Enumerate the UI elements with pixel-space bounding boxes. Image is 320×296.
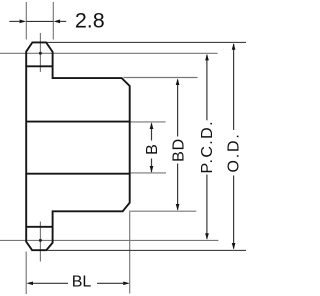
dimension BL right segment [97, 282, 123, 284]
dimension P.C.D. arrowhead up [205, 54, 209, 61]
svg-text:O.D.: O.D. [225, 132, 242, 172]
dimension 2.8 left arrowhead [20, 20, 27, 24]
dimension O.D. line lower [233, 176, 235, 249]
extension line 2.8 right [52, 2, 54, 40]
extension line BL right [129, 212, 131, 294]
tooth vertical center line bottom [39, 222, 41, 262]
dimension B arrowhead up [150, 122, 154, 129]
tooth root line top [26, 65, 52, 67]
svg-text:B: B [144, 144, 161, 155]
dimension P.C.D. line upper [206, 55, 208, 120]
O.D. extension line top [47, 41, 246, 43]
pitch center line top [0, 52, 218, 54]
tooth vertical center line top [39, 33, 41, 72]
svg-text:BL: BL [72, 273, 92, 290]
dimension BD line lower [177, 164, 179, 210]
svg-text:P.C.D.: P.C.D. [199, 120, 216, 173]
tooth root line bottom [26, 226, 52, 228]
dimension BL left arrowhead [26, 281, 33, 285]
extension line BD top [124, 77, 198, 79]
extension line B bottom [130, 172, 166, 174]
dimension 2.8 right arrowhead [54, 20, 61, 24]
dimension B arrowhead down [150, 166, 154, 173]
dimension BL left segment [33, 282, 68, 284]
dimension B line lower [151, 159, 153, 173]
dimension 2.8 right tail [60, 20, 66, 22]
bore line top [26, 121, 130, 123]
dimension O.D. line upper [233, 44, 235, 130]
dimension 2.8 middle segment [26, 20, 53, 22]
pitch point dot top [39, 52, 42, 55]
O.D. extension line bottom [47, 249, 246, 251]
pitch point dot bottom [39, 239, 42, 242]
extension line 2.8 left [25, 2, 27, 40]
dimension P.C.D. line lower [206, 175, 208, 239]
svg-text:BD: BD [170, 138, 187, 162]
dimension BD line upper [177, 80, 179, 137]
extension line BD bottom [129, 210, 196, 212]
dimension BD arrowhead up [176, 78, 180, 85]
dimension P.C.D. arrowhead down [205, 233, 209, 240]
sprocket outline [26, 42, 130, 250]
dimension O.D. arrowhead down [232, 243, 236, 250]
extension line BL left [25, 252, 27, 295]
bore line bottom [26, 173, 130, 175]
svg-text:2.8: 2.8 [75, 8, 105, 32]
dimension 2.8 left tail [9, 20, 19, 22]
dimension BD arrowhead down [176, 204, 180, 211]
dimension B line upper [151, 123, 153, 140]
dimension O.D. arrowhead up [232, 43, 236, 50]
pitch center line bottom [0, 239, 218, 241]
extension line B top [130, 121, 165, 123]
dimension BL right arrowhead [123, 281, 130, 285]
